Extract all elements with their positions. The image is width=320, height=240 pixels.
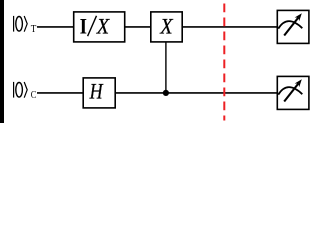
gate H box [83, 78, 115, 108]
gate X box [151, 12, 182, 42]
svg-text:I: I [80, 14, 87, 39]
wire bottom qubit C [37, 92, 278, 94]
barrier red dashed line [223, 4, 225, 121]
svg-text:H: H [89, 78, 104, 103]
wire top qubit T [37, 26, 278, 28]
svg-text:C: C [31, 90, 37, 101]
ket label |0>_C [14, 82, 37, 101]
svg-text:X: X [159, 14, 173, 39]
left window edge bar [0, 0, 4, 123]
wire control vertical [165, 42, 167, 93]
meter M2 bottom [277, 76, 309, 109]
control dot [163, 90, 169, 96]
svg-text:X: X [96, 14, 110, 39]
meter M1 top [277, 10, 309, 43]
svg-text:T: T [31, 24, 37, 35]
gate I/X box [74, 12, 125, 42]
ket label |0>_T [14, 16, 37, 35]
